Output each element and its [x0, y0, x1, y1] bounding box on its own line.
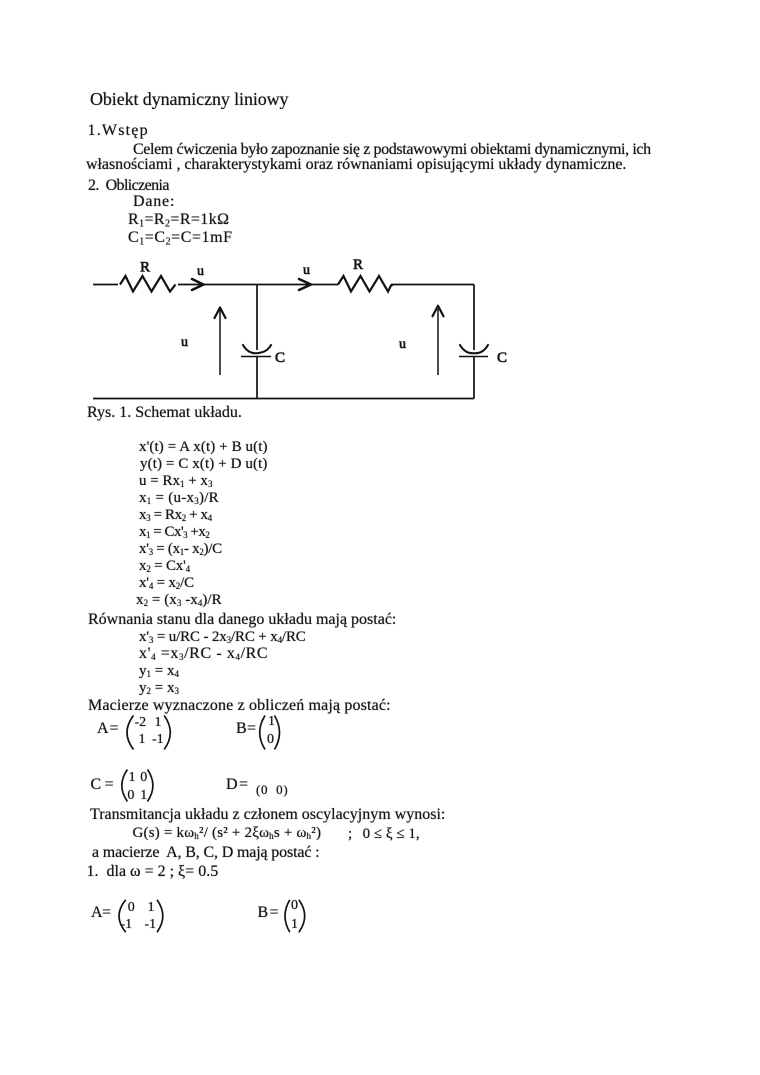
- title: [90, 90, 288, 108]
- output equation 1: [139, 664, 179, 679]
- matrix A2 label: [91, 905, 103, 921]
- matrix B2 label: [258, 905, 269, 921]
- xi condition: [348, 827, 420, 842]
- C values: [128, 230, 233, 246]
- matrix A1 label: [97, 721, 109, 737]
- Dane:: [133, 194, 175, 210]
- wire right vertical lower: [473, 357, 475, 399]
- wire right vertical upper: [473, 285, 475, 351]
- capacitor C2 flat plate: [459, 356, 488, 358]
- capacitor C1 flat plate: [241, 356, 271, 358]
- case 1 line: [87, 864, 219, 880]
- wire node A vertical lower: [256, 357, 258, 399]
- matrix C label: [91, 777, 102, 793]
- arrow current i2: [299, 279, 311, 290]
- output equation 2: [139, 681, 179, 696]
- arrow current i1: [192, 279, 204, 290]
- section 1 heading: [88, 123, 149, 139]
- matrix D label: [226, 777, 238, 793]
- resistor R2: [338, 276, 393, 292]
- section 2 heading: [88, 178, 169, 194]
- state equation 1: [139, 630, 306, 645]
- equation x1' state: [139, 440, 268, 455]
- wire node A vertical upper: [256, 285, 258, 351]
- a macierze line: [92, 845, 319, 861]
- voltage arrow u1: [219, 310, 221, 375]
- matrix B2 values: [291, 899, 298, 913]
- paragraph line 2: [86, 157, 626, 173]
- matrix B1 values: [268, 715, 275, 729]
- matrix D value: [256, 783, 288, 796]
- capacitor C2 curved plate: [460, 344, 489, 353]
- wire R2 to right corner: [391, 284, 474, 286]
- transfer function: [133, 826, 322, 841]
- matrix B1 label: [236, 721, 247, 737]
- R values: [128, 212, 229, 228]
- state equations intro: [88, 612, 396, 628]
- matrix A2 values: [128, 901, 135, 915]
- wire R1 to node A: [178, 284, 257, 286]
- matrices intro: [88, 698, 391, 714]
- voltage arrow u2: [437, 309, 439, 375]
- wire input top lead: [93, 284, 118, 286]
- transmittance intro: [90, 807, 445, 823]
- resistor R1: [120, 276, 176, 292]
- state equation 2: [139, 646, 268, 662]
- paragraph line 1: [133, 142, 651, 158]
- figure caption: [87, 405, 242, 421]
- matrix A1 values: [135, 716, 147, 730]
- wire bottom: [93, 398, 474, 400]
- capacitor C1 curved plate: [243, 344, 272, 353]
- matrix C values: [129, 771, 136, 785]
- wire node A to R2: [257, 284, 338, 286]
